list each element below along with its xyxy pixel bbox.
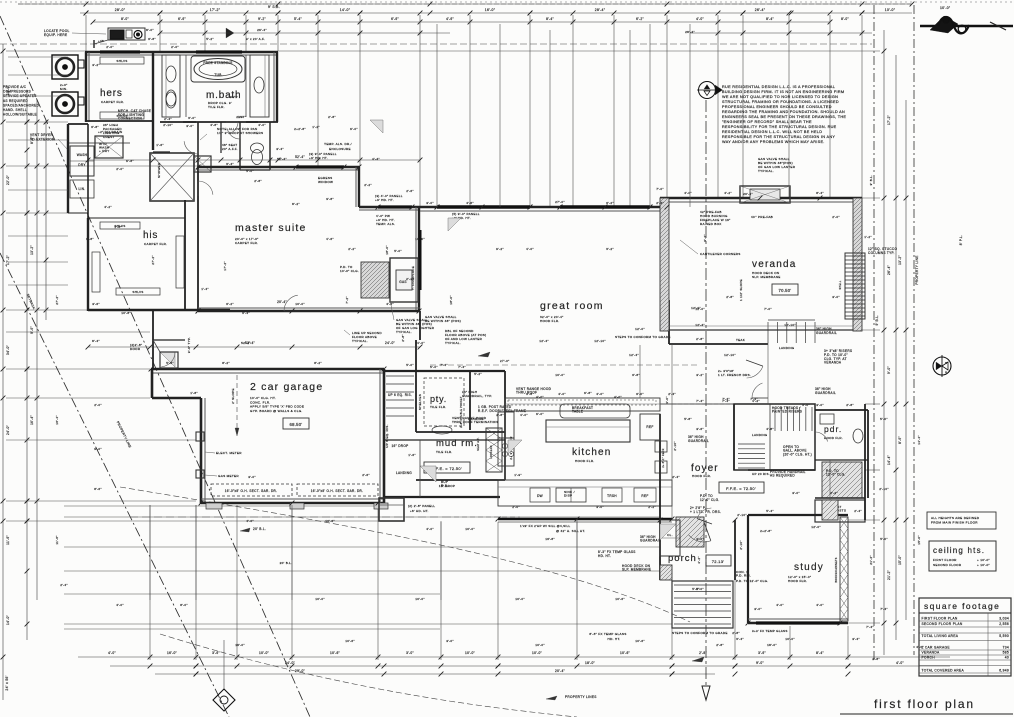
svg-text:2'-8": 2'-8" [496, 413, 504, 417]
witness lines to right dims [278, 50, 880, 52]
svg-text:4'-2": 4'-2" [104, 205, 112, 209]
svg-text:14'-4": 14'-4" [887, 455, 891, 465]
svg-text:REF: REF [641, 494, 648, 498]
bottom area extra ticks [148, 664, 153, 669]
garage elevation box [283, 418, 309, 429]
svg-text:3'-0": 3'-0" [832, 295, 840, 299]
svg-text:ENCLOSURE: ENCLOSURE [329, 147, 351, 151]
svg-text:2'-0": 2'-0" [171, 45, 179, 49]
svg-text:28'-0": 28'-0" [115, 8, 126, 12]
svg-text:18'-0": 18'-0" [449, 295, 453, 305]
svg-text:4'-0": 4'-0" [916, 645, 924, 649]
svg-text:6'-6": 6'-6" [391, 17, 399, 21]
svg-text:18'-0": 18'-0" [767, 643, 777, 647]
svg-text:6'-2": 6'-2" [226, 302, 234, 306]
svg-text:CARPET FLR.: CARPET FLR. [144, 242, 167, 246]
svg-text:LANDING: LANDING [468, 417, 484, 421]
svg-text:6'-8": 6'-8" [91, 125, 99, 129]
svg-text:2'-6": 2'-6" [236, 115, 244, 119]
svg-text:+9' HD. HT.: +9' HD. HT. [375, 198, 394, 202]
svg-text:REGARDING THE FRAMING AND FOUN: REGARDING THE FRAMING AND FOUNDATION. SH… [722, 110, 845, 114]
kitchen sink [556, 488, 586, 502]
breakfast table [560, 404, 630, 418]
svg-text:2+ 3'-1" REFR: 2+ 3'-1" REFR [662, 448, 665, 467]
svg-text:TYPICAL.: TYPICAL. [396, 330, 412, 334]
study windows [756, 621, 840, 624]
svg-text:10'-6": 10'-6" [620, 651, 630, 655]
left dimension line column 1 [2, 44, 4, 700]
great room north windows ticks [435, 205, 440, 210]
svg-text:10'-8": 10'-8" [121, 311, 131, 315]
svg-text:4'-0": 4'-0" [776, 603, 784, 607]
svg-text:TILE FLR.: TILE FLR. [436, 450, 453, 454]
svg-text:TYPICAL.: TYPICAL. [758, 169, 774, 173]
svg-text:4'-4": 4'-4" [372, 157, 380, 161]
svg-text:+2" DIA DRAIN: +2" DIA DRAIN [98, 130, 123, 134]
svg-text:24' x 56': 24' x 56' [5, 675, 9, 690]
svg-text:6'-2": 6'-2" [606, 201, 614, 205]
svg-text:7'-0": 7'-0" [656, 187, 664, 191]
svg-text:9'-2": 9'-2" [258, 17, 266, 21]
top dimension line row 1 [18, 3, 912, 5]
porch elevation box [706, 555, 731, 566]
water closet [239, 122, 241, 170]
stair hall extra walls [733, 404, 735, 470]
svg-text:22'-0": 22'-0" [6, 175, 10, 185]
left dimension line column 4 [45, 120, 47, 320]
svg-text:TEMP. ALS.: TEMP. ALS. [376, 222, 395, 226]
svg-text:9'-8": 9'-8" [326, 197, 334, 201]
svg-text:COLUMNS TYP.: COLUMNS TYP. [868, 251, 895, 255]
svg-text:2'-2": 2'-2" [364, 183, 372, 187]
svg-text:10'-6": 10'-6" [635, 639, 645, 643]
svg-text:2'-0": 2'-0" [94, 403, 102, 407]
svg-text:+ 10'-0": + 10'-0" [977, 563, 990, 567]
svg-text:14'-4": 14'-4" [917, 435, 921, 445]
svg-text:3'-6": 3'-6" [92, 302, 100, 306]
svg-text:8'-4": 8'-4" [766, 17, 774, 21]
svg-text:PROFESSIONAL ENGINEER SHOULD B: PROFESSIONAL ENGINEER SHOULD BE CONSULTE… [722, 105, 832, 109]
svg-text:UP 20 RIS.: UP 20 RIS. [752, 472, 770, 476]
svg-text:STRUCTURAL FRAMING OR FOUNDATI: STRUCTURAL FRAMING OR FOUNDATIONS. A LIC… [722, 100, 839, 104]
svg-text:2'-2": 2'-2" [406, 277, 414, 281]
svg-text:STEPS TO CONFORM TO GRADE: STEPS TO CONFORM TO GRADE [615, 335, 671, 339]
svg-text:1'-8": 1'-8" [190, 391, 198, 395]
svg-text:10'-0": 10'-0" [465, 527, 475, 531]
wash dry closet [67, 124, 69, 213]
dishwasher [530, 488, 550, 502]
svg-text:7'-0": 7'-0" [764, 307, 772, 311]
svg-text:GUARDRAIL: GUARDRAIL [640, 539, 661, 543]
master bath walls [276, 52, 278, 122]
svg-text:1'-8": 1'-8" [114, 225, 122, 229]
garage hall stoop [160, 352, 178, 368]
svg-text:AS REQUIRED: AS REQUIRED [770, 474, 795, 478]
foyer stairs block [734, 404, 815, 470]
svg-text:3'-4": 3'-4" [736, 637, 744, 641]
svg-text:17'-2": 17'-2" [210, 8, 221, 12]
svg-text:70.50': 70.50' [778, 288, 791, 293]
svg-text:10'-0" CLG.: 10'-0" CLG. [340, 269, 359, 273]
right dimension line column 3 [905, 100, 907, 620]
svg-text:2'-10": 2'-10" [739, 540, 743, 550]
master east window [378, 205, 412, 208]
svg-text:hers: hers [100, 88, 123, 99]
gas meter [196, 470, 204, 478]
right property line dashed [873, 5, 875, 660]
svg-text:WE ARE NOT QUALIFIED TO NOR LI: WE ARE NOT QUALIFIED TO NOR LICENSED TO … [722, 95, 838, 99]
svg-text:(2) 2'-8" PANELL: (2) 2'-8" PANELL [408, 504, 435, 508]
svg-text:7'-2": 7'-2" [345, 296, 349, 304]
svg-text:BOOKS/CABINETS: BOOKS/CABINETS [835, 557, 838, 582]
great room west wall [419, 311, 421, 340]
veranda screen grille [845, 253, 865, 319]
svg-text:HOLLOW/SUITABLE: HOLLOW/SUITABLE [3, 113, 37, 117]
mbath door arcs [197, 140, 199, 154]
svg-text:2'-0": 2'-0" [512, 505, 520, 509]
svg-text:8'-4": 8'-4" [92, 339, 100, 343]
svg-text:9'-2": 9'-2" [703, 234, 707, 242]
misc leader arrows [478, 352, 490, 357]
svg-text:3'-0": 3'-0" [816, 403, 824, 407]
svg-text:9'-0": 9'-0" [756, 661, 764, 665]
svg-text:6'-8": 6'-8" [148, 37, 156, 41]
svg-text:3'-0": 3'-0" [446, 639, 454, 643]
svg-text:8'-0": 8'-0" [121, 17, 129, 21]
extra horizontal witness left [8, 56, 68, 58]
svg-text:34'-0": 34'-0" [6, 345, 10, 355]
hers closet walls [85, 51, 278, 53]
svg-text:10'-0": 10'-0" [785, 637, 795, 641]
svg-text:SHLVS: SHLVS [132, 290, 143, 294]
svg-text:12'-0" CLG.: 12'-0" CLG. [700, 498, 720, 502]
svg-text:4'-6": 4'-6" [386, 302, 394, 306]
svg-text:15'-0": 15'-0" [917, 535, 921, 545]
svg-text:4'-0": 4'-0" [116, 603, 124, 607]
svg-text:3'-0": 3'-0" [426, 201, 434, 205]
svg-text:SHOWER: SHOWER [157, 162, 161, 178]
svg-text:2'-0": 2'-0" [832, 215, 840, 219]
mud ffe box [424, 462, 470, 473]
svg-text:2'-4": 2'-4" [60, 583, 68, 587]
svg-text:DISP: DISP [564, 493, 572, 497]
svg-text:4'-0": 4'-0" [816, 603, 824, 607]
porch pier hatch [676, 517, 704, 547]
svg-text:16'-0": 16'-0" [167, 651, 177, 655]
svg-text:SHELVES: SHELVES [418, 394, 422, 410]
svg-text:4'-0": 4'-0" [258, 123, 266, 127]
svg-text:4'-6": 4'-6" [446, 17, 454, 21]
svg-text:first floor plan: first floor plan [874, 697, 975, 711]
mid-plan witness verticals [576, 519, 578, 600]
svg-text:SPACED/ANCHORED: SPACED/ANCHORED [3, 103, 39, 107]
garage hall walls [152, 311, 154, 369]
long extension lines lower left [64, 505, 378, 507]
svg-text:5'-6": 5'-6" [166, 361, 174, 365]
svg-text:PAINTED RISERS: PAINTED RISERS [772, 410, 802, 414]
svg-text:4'-0": 4'-0" [696, 17, 704, 21]
powder room [815, 409, 868, 411]
svg-text:veranda: veranda [752, 259, 797, 270]
north arrow right edge [933, 357, 951, 375]
bottom dimension line row 2 [110, 665, 950, 667]
master west wall [197, 166, 199, 310]
svg-text:1 1/2' SLOPE: 1 1/2' SLOPE [739, 279, 743, 301]
svg-text:3'-0": 3'-0" [186, 124, 194, 128]
svg-text:24'-0": 24'-0" [6, 425, 10, 435]
svg-text:7'-4": 7'-4" [722, 397, 730, 401]
great room SE walls [668, 300, 670, 344]
AC compressor unit 1 [52, 55, 78, 79]
svg-text:5'-2": 5'-2" [474, 372, 482, 376]
svg-text:20' B.L.: 20' B.L. [253, 527, 266, 531]
svg-text:8'-0": 8'-0" [180, 603, 188, 607]
svg-text:7'-4": 7'-4" [866, 625, 874, 629]
veranda west column [660, 198, 669, 331]
svg-text:12'-0": 12'-0" [695, 307, 705, 311]
svg-text:pty.: pty. [430, 394, 447, 404]
bottom dimension line row 1 [78, 656, 950, 658]
svg-text:3'-4": 3'-4" [226, 162, 234, 166]
svg-text:8'-6": 8'-6" [94, 487, 102, 491]
svg-text:HOOD FLR.: HOOD FLR. [692, 474, 711, 478]
svg-text:ENGINEERS SEAL BE PRESENT ON T: ENGINEERS SEAL BE PRESENT ON THESE DRAWI… [722, 115, 846, 119]
svg-text:16" DROP: 16" DROP [439, 484, 456, 488]
svg-text:TOTAL COVERED AREA: TOTAL COVERED AREA [922, 669, 965, 673]
svg-text:2'-10": 2'-10" [163, 123, 173, 127]
left dimension line column 3 [36, 100, 38, 600]
foyer north walls [660, 403, 734, 405]
kitchen top counter [505, 398, 660, 411]
svg-text:10'-0": 10'-0" [515, 597, 525, 601]
svg-text:9' B.L.: 9' B.L. [875, 315, 879, 326]
svg-text:6'-0": 6'-0" [536, 412, 544, 416]
svg-text:3,034: 3,034 [999, 617, 1009, 621]
right dimension line column 2 [895, 55, 897, 640]
foyer ffe box [719, 482, 764, 493]
svg-text:1'-6": 1'-6" [408, 453, 416, 457]
svg-text:4'-0": 4'-0" [684, 191, 692, 195]
study east hatch pier [822, 500, 838, 520]
trash cabinet [602, 488, 622, 502]
svg-text:SHELL: SHELL [839, 280, 842, 289]
left edge extra ticks [25, 120, 30, 125]
svg-text:12'-10": 12'-10" [594, 339, 606, 343]
svg-text:2'-8" DOUBLE POCKET: 2'-8" DOUBLE POCKET [460, 396, 463, 428]
svg-text:3'-4": 3'-4" [852, 637, 860, 641]
svg-text:DW: DW [537, 494, 543, 498]
free standing tub [191, 56, 245, 82]
svg-text:3'-0": 3'-0" [802, 403, 810, 407]
kitchen bottom counter [498, 480, 672, 506]
svg-text:26'-4": 26'-4" [887, 265, 891, 275]
svg-text:1'x9' FX 2'HP W/ SILL @4,SILL: 1'x9' FX 2'HP W/ SILL @4,SILL [520, 524, 571, 528]
svg-text:UP 6 EQ. RIS.: UP 6 EQ. RIS. [385, 424, 389, 448]
svg-text:CONNECTION: CONNECTION [118, 117, 143, 121]
svg-text:6'-0": 6'-0" [350, 127, 358, 131]
svg-text:ceiling hts.: ceiling hts. [933, 546, 985, 555]
svg-text:DOOR: DOOR [130, 347, 141, 351]
svg-text:6'-2": 6'-2" [636, 17, 644, 21]
svg-text:13'-2": 13'-2" [898, 255, 902, 265]
hall dim ticks row y160 [88, 159, 420, 161]
hall south wall [384, 496, 500, 498]
svg-text:2'-8": 2'-8" [732, 631, 740, 635]
svg-text:12'-0" CLG.: 12'-0" CLG. [826, 473, 846, 477]
svg-text:12'-4": 12'-4" [629, 353, 639, 357]
garage door 2 [297, 484, 378, 496]
svg-text:GYP. BOARD @ WALLS & CLG.: GYP. BOARD @ WALLS & CLG. [250, 409, 303, 413]
linen cabinet [194, 156, 211, 172]
svg-text:4'-0": 4'-0" [536, 395, 544, 399]
pdr fixtures [820, 414, 834, 424]
svg-text:kitchen: kitchen [572, 447, 611, 458]
svg-text:TO EXTERIOR: TO EXTERIOR [30, 137, 55, 141]
porch front door [704, 522, 711, 541]
svg-text:10'-6": 10'-6" [325, 519, 335, 523]
svg-text:2'-4": 2'-4" [164, 117, 172, 121]
mbath hall walls [197, 122, 199, 166]
svg-text:2'-0": 2'-0" [116, 167, 124, 171]
svg-text:2'-8": 2'-8" [328, 115, 336, 119]
svg-text:VERANDA: VERANDA [922, 651, 941, 655]
svg-text:AS REQUIRED: AS REQUIRED [3, 99, 28, 103]
svg-text:2'-8": 2'-8" [696, 337, 704, 341]
svg-text:A: A [945, 370, 947, 374]
property line diagonal B [0, 253, 229, 717]
svg-text:TOTAL LIVING AREA: TOTAL LIVING AREA [922, 634, 959, 638]
svg-text:LOCKERS: LOCKERS [490, 445, 493, 459]
svg-text:RESPONSIBILITY FOR THE STRUCTU: RESPONSIBILITY FOR THE STRUCTURAL DESIGN… [722, 125, 837, 129]
svg-text:3'-0": 3'-0" [754, 607, 762, 611]
svg-text:5'-0": 5'-0" [406, 363, 414, 367]
hall to kitchen walls [384, 439, 505, 441]
svg-text:RUE RESIDENTIAL DESIGN L.L.C.: RUE RESIDENTIAL DESIGN L.L.C. IS A PROFE… [722, 85, 835, 89]
svg-text:TILE FLR.: TILE FLR. [430, 405, 447, 409]
svg-text:2'-6": 2'-6" [406, 189, 414, 193]
svg-text:26'-4": 26'-4" [257, 28, 267, 32]
svg-text:P.D. TO 12'-0" CLG.: P.D. TO 12'-0" CLG. [736, 579, 768, 583]
master entry door arcs [284, 310, 300, 312]
svg-text:@ 42" H. SILL HT.: @ 42" H. SILL HT. [556, 529, 585, 533]
svg-text:2'-8": 2'-8" [846, 403, 854, 407]
svg-text:2'-2": 2'-2" [830, 491, 838, 495]
svg-text:PROVIDE A/C: PROVIDE A/C [3, 85, 27, 89]
svg-text:ELECT. METER: ELECT. METER [216, 451, 242, 455]
svg-text:CARPET FLR.: CARPET FLR. [101, 100, 124, 104]
veranda north wall [660, 197, 862, 199]
svg-text:1'-9": 1'-9" [514, 473, 522, 477]
svg-text:LANDING: LANDING [752, 433, 768, 437]
svg-text:7'-4": 7'-4" [458, 365, 466, 369]
svg-text:7'-4": 7'-4" [440, 363, 448, 367]
svg-text:TILE FLR.: TILE FLR. [208, 105, 225, 109]
svg-text:12'-4": 12'-4" [539, 339, 549, 343]
pantry shelves dashed [424, 378, 464, 426]
svg-text:10'-6": 10'-6" [615, 597, 625, 601]
svg-text:2'-10": 2'-10" [737, 513, 747, 517]
svg-text:3'-2": 3'-2" [696, 373, 704, 377]
witness lines long verticals top right [549, 30, 551, 207]
great room west window [419, 230, 422, 290]
porch west pier [660, 565, 672, 580]
svg-text:27'-2": 27'-2" [55, 295, 59, 305]
svg-text:12'-10": 12'-10" [784, 323, 796, 327]
svg-text:4'-2": 4'-2" [724, 191, 732, 195]
understairs closet hatch [822, 462, 862, 498]
svg-text:SHLVS: SHLVS [116, 59, 127, 63]
svg-text:5'-0": 5'-0" [880, 417, 888, 421]
svg-text:5'-8": 5'-8" [684, 417, 692, 421]
svg-text:WAY AND/OR ANY PROBLEMS WHICH: WAY AND/OR ANY PROBLEMS WHICH MAY ARISE. [722, 140, 825, 144]
svg-text:585: 585 [1003, 651, 1009, 655]
svg-text:9'-6": 9'-6" [30, 326, 34, 334]
svg-text:3'-6": 3'-6" [696, 427, 704, 431]
svg-text:10'-0": 10'-0" [315, 597, 325, 601]
svg-text:HD. HT.: HD. HT. [598, 554, 611, 558]
driveway curb dashed [130, 516, 446, 518]
svg-text:10'-0": 10'-0" [295, 302, 305, 306]
great room ceiling dashed [430, 364, 700, 366]
svg-text:16" DROP: 16" DROP [392, 444, 409, 448]
svg-text:2'-10": 2'-10" [673, 441, 677, 451]
svg-text:his: his [143, 230, 158, 241]
window segments on bath top wall [100, 50, 140, 53]
svg-text:3'-0": 3'-0" [696, 537, 704, 541]
kitchen extra fixtures [640, 414, 660, 440]
keynote circle symbol [699, 82, 716, 99]
garage pilasters [206, 503, 222, 509]
svg-text:4'-6": 4'-6" [326, 237, 334, 241]
svg-text:5'-0": 5'-0" [430, 365, 438, 369]
svg-text:study: study [794, 562, 824, 573]
setback dashed line top [0, 43, 872, 45]
svg-text:HOOD FLR.: HOOD FLR. [540, 319, 560, 323]
svg-text:CL.: CL. [667, 533, 673, 537]
window tag triangle [226, 28, 234, 38]
svg-text:3'-6": 3'-6" [212, 651, 220, 655]
svg-text:6'-8": 6'-8" [584, 391, 592, 395]
svg-text:60"P: 60"P [230, 95, 238, 99]
svg-text:LANDING: LANDING [779, 346, 795, 350]
svg-text:20'-4": 20'-4" [277, 300, 287, 304]
svg-text:pdr.: pdr. [824, 424, 842, 434]
svg-text:TYPICAL.: TYPICAL. [352, 339, 368, 343]
mbath second sink [166, 90, 176, 106]
svg-text:FREE STANDING: FREE STANDING [203, 61, 232, 65]
garage diagonal brace lines [153, 340, 160, 352]
svg-text:4'-0": 4'-0" [426, 527, 434, 531]
svg-text:10'-0": 10'-0" [885, 8, 896, 12]
svg-text:TYPICAL.: TYPICAL. [445, 341, 461, 345]
svg-text:6'-4": 6'-4" [242, 311, 250, 315]
svg-text:8'-6": 8'-6" [898, 436, 902, 444]
svg-text:10'-0": 10'-0" [465, 651, 475, 655]
svg-text:9' x 20' A.F.: 9' x 20' A.F. [246, 37, 265, 41]
svg-text:REF: REF [646, 425, 653, 429]
svg-text:2'-8": 2'-8" [726, 295, 734, 299]
driveway arc dashed [120, 487, 690, 622]
svg-text:2 CAR GARAGE: 2 CAR GARAGE [922, 646, 951, 650]
top dimension line row 2 [80, 12, 912, 14]
svg-text:master suite: master suite [235, 222, 307, 234]
svg-text:4'-0": 4'-0" [614, 395, 622, 399]
master suite outline [198, 166, 360, 168]
svg-text:4'-8": 4'-8" [766, 427, 774, 431]
svg-text:TRSH: TRSH [607, 494, 617, 498]
svg-text:SECOND FLOOR PLAN: SECOND FLOOR PLAN [922, 622, 963, 626]
svg-text:4'-0": 4'-0" [526, 247, 534, 251]
